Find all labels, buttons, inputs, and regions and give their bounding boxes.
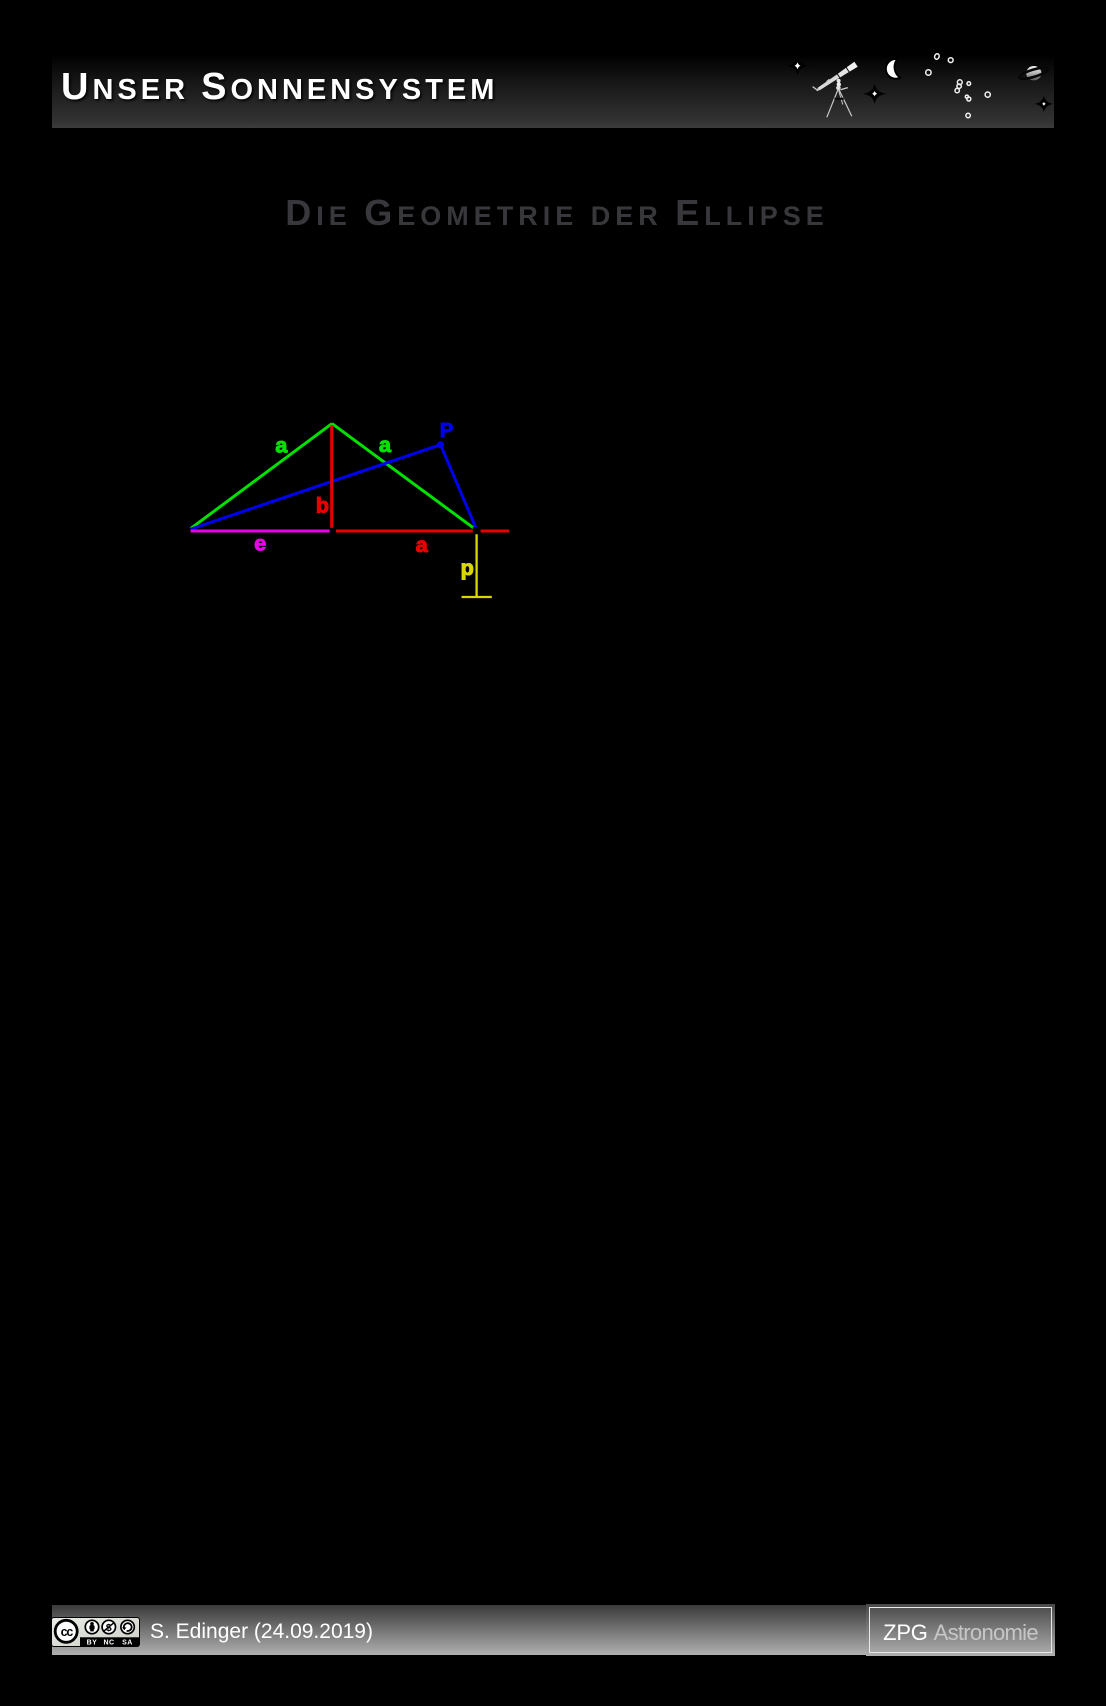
svg-text:P: P <box>440 420 453 442</box>
svg-text:BY: BY <box>87 1640 98 1647</box>
svg-text:p: p <box>461 556 474 580</box>
ZPG Astronomie box <box>866 1604 1055 1656</box>
svg-text:a: a <box>275 433 288 457</box>
header astronomy art <box>780 50 1056 130</box>
page title: Die Geometrie der Ellipse <box>4 192 1106 234</box>
blue point P dot <box>437 441 444 448</box>
CC BY-NC-SA license plaque <box>51 1616 141 1648</box>
black junction dot center <box>330 528 336 534</box>
red semi-minor axis b (vertical) <box>330 425 333 530</box>
blue line: P to right vertex <box>441 445 477 530</box>
constellation rings <box>926 53 991 118</box>
magenta linear eccentricity e <box>191 530 330 533</box>
ellipse geometry diagram <box>170 405 530 615</box>
saturn planet <box>1018 65 1049 81</box>
star sparkle right <box>1034 95 1053 112</box>
telescope <box>813 62 858 118</box>
header bar <box>52 56 1054 128</box>
cc logo <box>55 1620 77 1642</box>
crescent moon <box>886 59 900 79</box>
svg-text:b: b <box>316 494 329 518</box>
yellow foot bar <box>462 596 492 598</box>
blue line: left vertex to P <box>191 445 441 530</box>
svg-text:a: a <box>416 533 429 557</box>
svg-text:e: e <box>254 531 266 555</box>
svg-text:a: a <box>379 433 392 457</box>
black junction dot right focus <box>473 527 481 534</box>
by icon <box>85 1620 98 1633</box>
star sparkle left <box>787 56 809 76</box>
green line a (right): apex to right vertex <box>332 424 477 531</box>
footer bar <box>52 1605 1054 1655</box>
nc icon <box>102 1620 115 1633</box>
yellow semi-latus rectum p (vertical) <box>475 534 477 597</box>
svg-text:NC: NC <box>103 1640 114 1647</box>
sa icon <box>121 1620 134 1633</box>
green line a (left): left vertex to apex <box>191 424 332 529</box>
footer author text <box>150 1607 373 1657</box>
star sparkle middle <box>863 83 887 104</box>
svg-text:cc: cc <box>61 1625 74 1639</box>
red semi-major axis a (horizontal) <box>333 530 509 533</box>
header title: UNSER SONNENSYSTEM <box>61 51 498 123</box>
svg-text:SA: SA <box>122 1640 133 1647</box>
